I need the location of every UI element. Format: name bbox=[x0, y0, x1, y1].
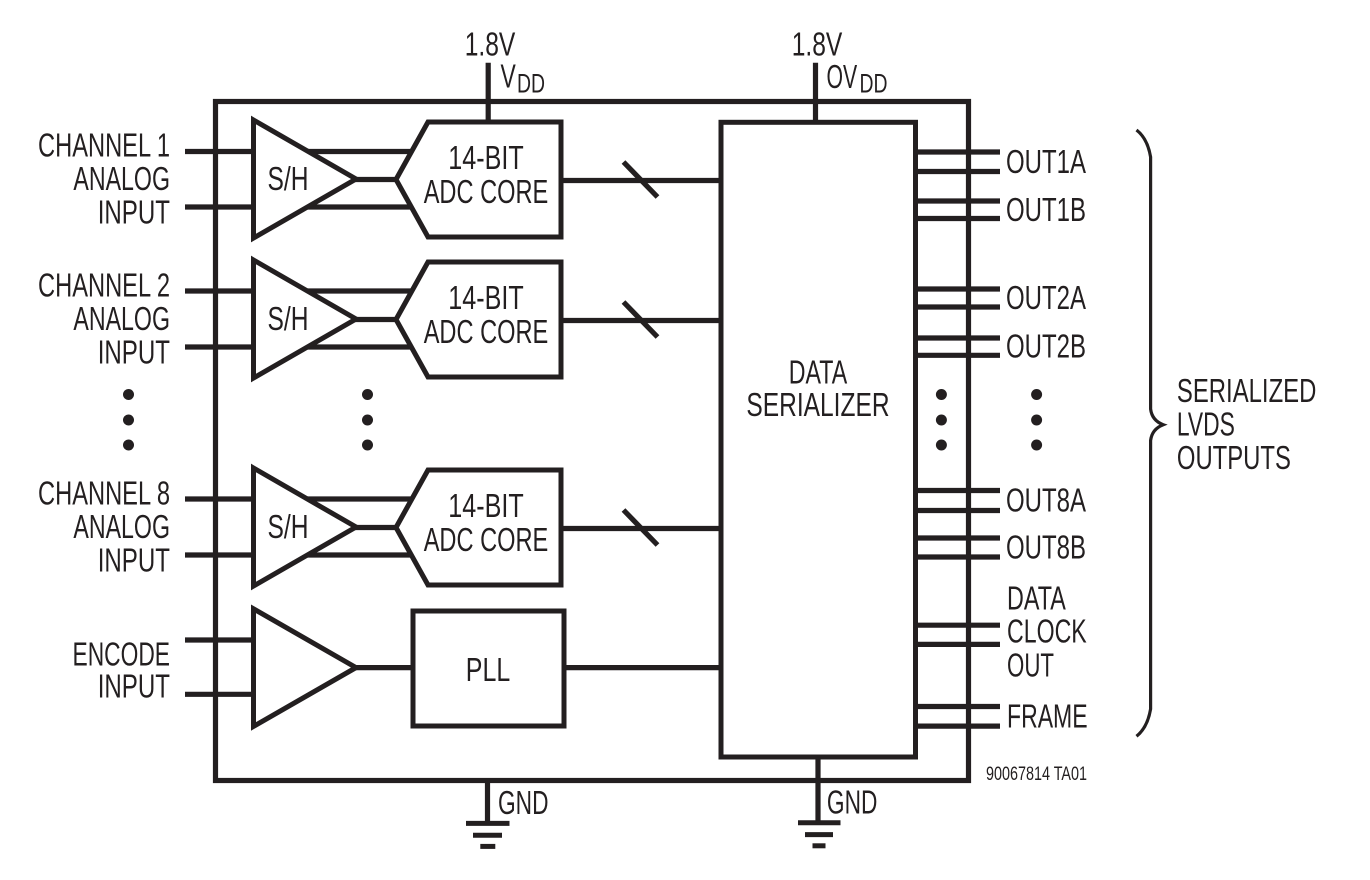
svg-text:V: V bbox=[501, 58, 517, 95]
bus slash ADC1 bbox=[624, 162, 658, 197]
block PLL bbox=[413, 611, 564, 726]
chip outline bbox=[216, 102, 969, 781]
svg-text:ANALOG: ANALOG bbox=[73, 161, 170, 198]
svg-text:OUT2A: OUT2A bbox=[1006, 280, 1086, 317]
svg-text:OUTPUTS: OUTPUTS bbox=[1177, 440, 1291, 477]
svg-text:INPUT: INPUT bbox=[98, 542, 170, 579]
wire CHANNEL 2 input - bbox=[185, 344, 430, 349]
svg-text:ADC CORE: ADC CORE bbox=[424, 522, 549, 559]
svg-text:ANALOG: ANALOG bbox=[73, 301, 170, 338]
svg-text:14-BIT: 14-BIT bbox=[448, 280, 523, 317]
wire PLL input bbox=[356, 665, 413, 670]
svg-text:INPUT: INPUT bbox=[98, 334, 170, 371]
wire GND2 stub bbox=[815, 757, 820, 822]
svg-text:90067814 TA01: 90067814 TA01 bbox=[986, 763, 1087, 785]
wire S/H1 to ADC1 bbox=[354, 177, 398, 182]
op-amp S/H buffer channel 2 bbox=[254, 260, 357, 378]
wire GND1 stub bbox=[485, 781, 490, 823]
dots ellipsis S/H column bbox=[362, 389, 373, 400]
ground symbol GND2 bbox=[798, 820, 841, 825]
svg-text:CHANNEL 8: CHANNEL 8 bbox=[38, 476, 170, 513]
wire OUT8B pair bbox=[916, 535, 1001, 540]
bus slash ADC8 bbox=[624, 510, 658, 545]
svg-text:OUT1B: OUT1B bbox=[1006, 192, 1086, 229]
svg-text:CLOCK: CLOCK bbox=[1007, 614, 1087, 651]
wire OUT8A pair bbox=[916, 488, 1001, 493]
svg-text:CHANNEL 1: CHANNEL 1 bbox=[38, 128, 170, 165]
wire ADC8 output bus bbox=[561, 526, 721, 531]
wire CHANNEL 2 input + bbox=[185, 288, 430, 293]
wire OVDD supply stub bbox=[813, 63, 818, 124]
wire OUT1A pair bbox=[916, 149, 1001, 154]
svg-text:ADC CORE: ADC CORE bbox=[424, 174, 549, 211]
wire CHANNEL 1 input + bbox=[185, 149, 430, 154]
svg-text:S/H: S/H bbox=[268, 301, 309, 338]
svg-text:OUT8A: OUT8A bbox=[1006, 483, 1086, 520]
svg-text:FRAME: FRAME bbox=[1007, 698, 1088, 735]
wire ENCODE input - bbox=[185, 692, 258, 697]
op-amp S/H buffer channel 8 bbox=[254, 468, 357, 586]
svg-text:OUT2B: OUT2B bbox=[1006, 329, 1086, 366]
svg-text:SERIALIZER: SERIALIZER bbox=[746, 387, 889, 424]
svg-text:GND: GND bbox=[827, 784, 878, 821]
wire DATA CLOCK OUT pair bbox=[916, 623, 1001, 628]
svg-text:S/H: S/H bbox=[268, 161, 309, 198]
brace serialized LVDS outputs bbox=[1137, 130, 1164, 736]
svg-text:CHANNEL 2: CHANNEL 2 bbox=[38, 268, 170, 305]
block DATA SERIALIZER bbox=[721, 122, 916, 757]
svg-text:DATA: DATA bbox=[1007, 581, 1066, 618]
svg-text:GND: GND bbox=[498, 785, 549, 822]
wire CHANNEL 8 input + bbox=[185, 496, 430, 501]
wire ADC1 output bus bbox=[561, 178, 721, 183]
wire OUT2B pair bbox=[916, 335, 1001, 340]
svg-text:PLL: PLL bbox=[466, 652, 510, 689]
op-amp S/H buffer channel 1 bbox=[254, 120, 357, 238]
bus slash ADC2 bbox=[624, 302, 658, 337]
svg-text:INPUT: INPUT bbox=[98, 194, 170, 231]
block ADC core channel 8 bbox=[396, 470, 561, 585]
wire PLL output bbox=[564, 665, 721, 670]
wire OUT2A pair bbox=[916, 286, 1001, 291]
wire CHANNEL 8 input - bbox=[185, 552, 430, 557]
dots ellipsis output label column bbox=[1031, 389, 1042, 400]
wire FRAME pair bbox=[916, 704, 1001, 709]
wire CHANNEL 1 input - bbox=[185, 204, 430, 209]
wire ENCODE input + bbox=[185, 637, 258, 642]
block ADC core channel 1 bbox=[396, 122, 561, 237]
svg-text:S/H: S/H bbox=[268, 509, 309, 546]
dots ellipsis label column left bbox=[123, 389, 134, 400]
svg-text:SERIALIZED: SERIALIZED bbox=[1177, 373, 1317, 410]
svg-text:OUT8B: OUT8B bbox=[1006, 530, 1086, 567]
wire ADC2 output bus bbox=[561, 318, 721, 323]
wire S/H8 to ADC8 bbox=[354, 525, 398, 530]
wire S/H2 to ADC2 bbox=[354, 317, 398, 322]
svg-text:LVDS: LVDS bbox=[1177, 406, 1235, 443]
svg-text:OUT1A: OUT1A bbox=[1006, 144, 1086, 181]
svg-text:DD: DD bbox=[860, 68, 888, 98]
ground symbol GND1 bbox=[466, 821, 510, 826]
svg-text:14-BIT: 14-BIT bbox=[448, 488, 523, 525]
svg-text:DD: DD bbox=[517, 68, 545, 98]
dots ellipsis serializer output column bbox=[936, 389, 947, 400]
svg-text:OUT: OUT bbox=[1007, 647, 1054, 684]
svg-text:ANALOG: ANALOG bbox=[73, 509, 170, 546]
op-amp ENCODE buffer bbox=[254, 609, 357, 727]
svg-text:OV: OV bbox=[827, 59, 858, 96]
svg-text:INPUT: INPUT bbox=[98, 668, 170, 705]
svg-text:14-BIT: 14-BIT bbox=[448, 140, 523, 177]
wire OUT1B pair bbox=[916, 198, 1001, 203]
block ADC core channel 2 bbox=[396, 262, 561, 377]
svg-text:ADC CORE: ADC CORE bbox=[424, 314, 549, 351]
wire VDD supply stub bbox=[486, 63, 491, 124]
